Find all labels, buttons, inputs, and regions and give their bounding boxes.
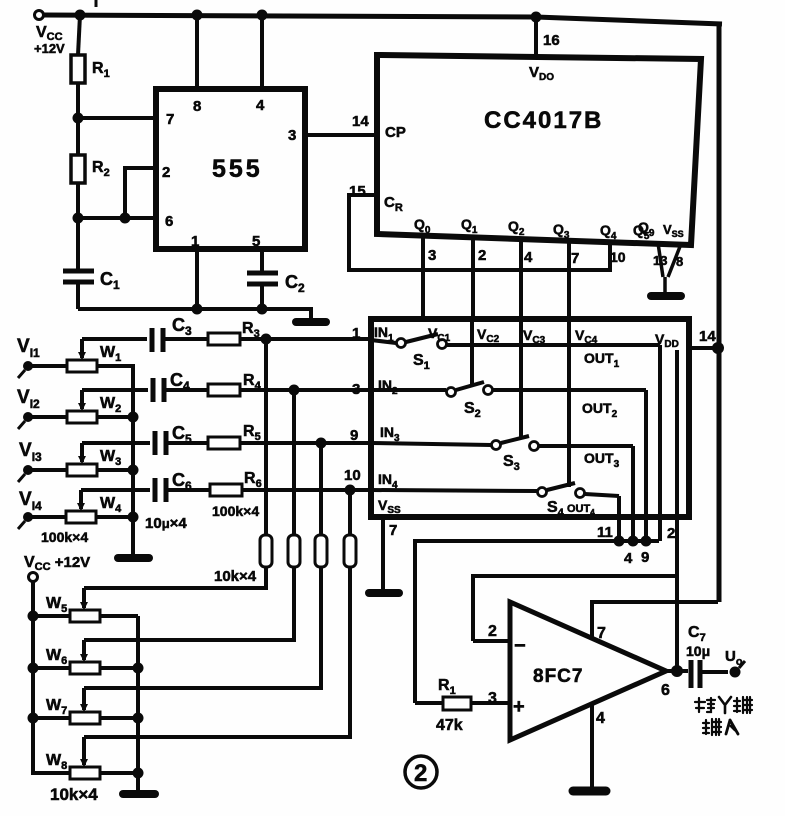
wire left power rail to R1 <box>78 15 80 55</box>
wire R4 to IN2 pin 3 <box>240 388 371 392</box>
svg-text:100k×4: 100k×4 <box>212 503 259 519</box>
svg-text:14: 14 <box>352 113 369 130</box>
wire OUT1 drop pin 2 <box>658 345 662 541</box>
wire VDD pin 14 stub <box>689 346 718 350</box>
svg-text:3: 3 <box>352 381 360 398</box>
svg-text:−: − <box>514 635 526 657</box>
potentiometer W6 <box>70 640 100 674</box>
resistor 10k b <box>288 535 300 567</box>
wire W7 right <box>100 716 138 720</box>
svg-text:+12V: +12V <box>34 41 65 56</box>
resistor R1 47k <box>443 697 471 710</box>
ground under W5-W8 rail <box>123 790 155 798</box>
wire W8 right <box>100 771 138 775</box>
wire C3 to R3 <box>165 337 208 341</box>
wire Q0 pin 3 drop <box>421 234 425 319</box>
wire W6 left <box>33 666 70 670</box>
svg-text:3: 3 <box>288 127 296 144</box>
capacitor C3 <box>152 328 163 352</box>
svg-text:555: 555 <box>212 155 263 183</box>
wire 10k a to W5 wiper <box>84 567 266 588</box>
scan artifact tick top <box>95 0 98 7</box>
wire bus to R1 <box>415 701 443 705</box>
wire S2 to OUT2 drop <box>493 388 646 392</box>
svg-text:10k×4: 10k×4 <box>214 568 257 585</box>
svg-text:7: 7 <box>166 111 174 128</box>
wire W1-W4 common rail <box>97 366 133 555</box>
wire VI1 to W1 <box>31 364 67 368</box>
wire W4 right to rail <box>96 515 133 519</box>
potentiometer W4 <box>66 490 96 523</box>
wire VDD inner drop to opamp supply <box>675 350 679 670</box>
node input terminal VI4 <box>18 512 33 529</box>
svg-text:9: 9 <box>350 427 358 444</box>
IC U3 analog switch box <box>371 319 689 517</box>
switch S3 <box>492 436 539 451</box>
node junction C2 rail <box>257 304 268 315</box>
node junction pin2 pin6 <box>120 213 131 224</box>
wire C4 to R4 <box>166 388 208 392</box>
node junction out pin11 bus <box>614 536 625 547</box>
svg-text:47k: 47k <box>436 717 463 734</box>
svg-text:2: 2 <box>478 247 486 264</box>
resistor 10k d <box>344 535 356 567</box>
svg-text:6: 6 <box>165 213 173 230</box>
svg-text:3: 3 <box>488 690 497 707</box>
node junction top rail x80 <box>75 10 86 21</box>
capacitor C1 <box>63 271 94 282</box>
switch S1 <box>397 334 447 349</box>
op-amp comparator 555 box <box>156 89 305 249</box>
wire C6 to R6 <box>168 488 210 492</box>
svg-text:15: 15 <box>349 183 366 200</box>
wire C1 to bottom rail <box>76 284 80 309</box>
wire IN1 inside to S1 <box>371 340 396 343</box>
node junction R1 R2 pin7 <box>73 113 84 124</box>
wire W3 right to rail <box>97 468 133 472</box>
svg-text:7: 7 <box>389 522 397 539</box>
node junction pin1 rail <box>192 304 203 315</box>
node junction pin14 rail <box>712 342 724 354</box>
wire W5-W8 right rail <box>136 616 140 790</box>
wire OUT4 drop pin 11 <box>617 496 621 541</box>
ground under CC4017B pins 13 8 <box>651 292 681 300</box>
wire Q1 pin 2 drop <box>471 236 475 319</box>
node input terminal VI1 <box>18 361 33 378</box>
wire VC2 control drop <box>470 319 474 384</box>
wire IN2 inside to S2 <box>371 388 446 392</box>
node Vcc terminal top-left <box>35 11 44 20</box>
resistor R3 <box>208 333 240 345</box>
capacitor C4 <box>153 378 164 402</box>
svg-text:CC4017B: CC4017B <box>484 107 603 134</box>
svg-text:7: 7 <box>571 250 579 267</box>
svg-text:100k×4: 100k×4 <box>41 529 88 545</box>
switch S2 <box>447 382 493 397</box>
svg-text:10k×4: 10k×4 <box>50 785 98 804</box>
ground opamp pin 4 <box>573 787 606 796</box>
wire pin 6 of 555 <box>78 216 156 220</box>
potentiometer W2 <box>67 390 97 423</box>
wire VC3 control drop <box>519 319 523 437</box>
svg-text:14: 14 <box>699 328 716 345</box>
wire R5 to IN3 pin 9 <box>240 441 371 445</box>
wire divider 1 drop <box>264 339 268 535</box>
svg-text:4: 4 <box>256 97 265 114</box>
wire Q2 pin 4 drop <box>519 238 523 319</box>
svg-text:8: 8 <box>193 98 201 115</box>
wire VSS pin 7 to ground <box>381 517 385 589</box>
wire pin 7 of 555 <box>78 116 156 120</box>
node junction out pin9 bus <box>641 536 652 547</box>
node junction R3 divider <box>261 334 272 345</box>
ground under 555 rail <box>296 318 326 326</box>
node junction top rail x197 <box>192 10 203 21</box>
wire R1 to pin 3 <box>471 701 510 705</box>
wire pin 5 of 555 to C2 <box>260 249 264 272</box>
wire R6 to IN4 pin 10 <box>242 488 371 492</box>
wire pin 8 of 555 to rail <box>195 15 199 89</box>
svg-text:4: 4 <box>596 710 605 727</box>
svg-text:13: 13 <box>653 253 667 268</box>
wire pin 6 output <box>666 669 688 673</box>
wire S1 to OUT1 drop <box>447 343 660 347</box>
ground under W1-W4 rail <box>118 554 149 562</box>
svg-text:10: 10 <box>344 467 361 484</box>
svg-text:4: 4 <box>624 550 633 567</box>
node junction top rail x262 <box>257 10 268 21</box>
wire pin 4 of 555 to rail <box>260 15 264 89</box>
resistor 10k c <box>315 535 327 567</box>
circled figure number 2 <box>405 756 437 788</box>
svg-text:16: 16 <box>543 32 560 49</box>
node junction W4 rail <box>128 512 139 523</box>
wire W1 wiper to C3 <box>82 337 147 341</box>
op-amp U4 8FC7 triangle <box>510 602 666 740</box>
svg-text:11: 11 <box>597 524 613 541</box>
wire IN4 inside to S4 <box>371 490 537 491</box>
potentiometer W1 <box>67 339 97 372</box>
node junction right rail W7 <box>133 713 144 724</box>
potentiometer W5 <box>70 588 100 622</box>
svg-text:6: 6 <box>661 682 670 699</box>
wire W5 left <box>33 614 70 618</box>
node junction R4 divider <box>289 385 300 396</box>
wire IN3 inside to S3 <box>371 443 491 445</box>
wire divider 2 drop <box>292 390 296 535</box>
wire W2 right to rail <box>97 415 133 419</box>
wire pin 4 to ground <box>590 703 594 787</box>
svg-text:10μ: 10μ <box>686 643 710 659</box>
wire VC4 control drop <box>567 319 571 487</box>
wire 10k d to W8 wiper <box>84 567 350 737</box>
node junction output feedback <box>671 665 683 677</box>
wire pin 1 of 555 to ground rail <box>195 249 199 309</box>
wire pin 15 CR reset loop <box>349 195 610 270</box>
svg-text:7: 7 <box>597 625 606 642</box>
wire 555 ground rail <box>78 309 311 318</box>
switch S4 <box>538 483 585 498</box>
node output terminal Uo <box>730 661 746 678</box>
resistor R4 <box>208 384 240 396</box>
wire pin 2 of 555 <box>125 168 156 218</box>
node junction right rail W6 <box>133 663 144 674</box>
svg-text:9: 9 <box>641 549 649 566</box>
wire pin 2 stub <box>473 639 510 643</box>
node junction R6 divider <box>345 485 356 496</box>
wire 10k c to W7 wiper <box>84 567 321 688</box>
wire W6 right <box>100 666 138 670</box>
wire C2 to ground rail <box>260 286 264 309</box>
wire S4 to OUT4 drop <box>585 494 619 496</box>
wire OUT3 drop pin 4 <box>631 446 635 541</box>
capacitor C6 <box>155 478 166 502</box>
node junction rail W7 <box>28 713 39 724</box>
node Vcc terminal bottom-left <box>29 573 38 582</box>
wire S3 to OUT3 drop <box>539 444 633 448</box>
wire R2 to node <box>76 183 80 270</box>
node junction rail W5 <box>28 611 39 622</box>
node junction W2 rail <box>128 412 139 423</box>
wire C5 to R5 <box>168 441 208 445</box>
svg-text:3: 3 <box>428 247 436 264</box>
IC U2 CC4017B box <box>377 55 701 245</box>
wire feedback loop <box>473 576 677 641</box>
wire VI2 to W2 <box>31 415 67 419</box>
svg-text:2: 2 <box>488 623 497 640</box>
label Chinese input line 2 <box>703 719 738 735</box>
wire VCC top rail <box>44 15 722 24</box>
node junction right rail W8 <box>133 768 144 779</box>
svg-text:10: 10 <box>610 249 626 265</box>
wire W5-W8 left rail <box>33 582 70 773</box>
wire 10k b to W6 wiper <box>84 567 294 640</box>
svg-text:4: 4 <box>524 249 533 266</box>
wire output bus <box>415 541 659 703</box>
svg-text:2: 2 <box>667 525 675 542</box>
svg-text:2: 2 <box>414 760 427 787</box>
wire W2 wiper to C4 <box>82 388 148 392</box>
wire Q3 pin 7 drop <box>567 239 571 319</box>
node junction R5 divider <box>316 438 327 449</box>
wire W4 wiper to C6 <box>81 488 150 492</box>
capacitor C7 <box>691 660 700 688</box>
wire divider 4 drop <box>348 490 352 535</box>
wire supply rail to pin 7 <box>592 602 718 639</box>
ground under VSS pin 7 <box>369 589 399 597</box>
node junction W3 rail <box>128 465 139 476</box>
svg-text:2: 2 <box>162 164 170 181</box>
wire C7 to Uo <box>702 670 728 674</box>
node input terminal VI2 <box>18 412 33 429</box>
node junction R2 C1 pin6 <box>73 213 84 224</box>
wire R1 to node <box>76 83 80 155</box>
wire OUT2 drop pin 9 <box>644 390 648 541</box>
resistor 10k a <box>260 535 272 567</box>
capacitor C2 <box>247 273 278 284</box>
svg-text:VCC +12V: VCC +12V <box>24 554 90 573</box>
wire pin 3 of 555 to CP pin14 <box>305 133 377 137</box>
wire divider 3 drop <box>319 443 323 535</box>
wire VI3 to W3 <box>31 468 67 472</box>
svg-text:+: + <box>513 696 525 718</box>
node junction out pin4 bus <box>628 536 639 547</box>
node junction rail W6 <box>28 663 39 674</box>
svg-text:1: 1 <box>191 233 199 250</box>
potentiometer W8 <box>70 737 100 779</box>
resistor R6 <box>210 484 242 496</box>
resistor R5 <box>208 437 240 449</box>
wire pins 13 8 to ground <box>658 243 681 292</box>
wire pin 16 of CC4017B to rail <box>534 17 538 57</box>
svg-text:CP: CP <box>385 124 406 141</box>
svg-text:8: 8 <box>676 254 683 269</box>
resistor R1 <box>71 55 85 83</box>
wire W7 left <box>33 716 70 720</box>
node input terminal VI3 <box>18 465 33 482</box>
wire W3 wiper to C5 <box>82 441 150 445</box>
wire R3 to IN1 pin 1 <box>240 337 371 341</box>
wire VCC right rail <box>717 22 722 602</box>
svg-text:8FC7: 8FC7 <box>533 666 583 687</box>
node junction top rail x536 <box>531 12 542 23</box>
potentiometer W7 <box>70 688 100 724</box>
wire VI4 to W4 <box>31 515 66 519</box>
label Chinese connect to Y axis line 1 <box>695 697 752 713</box>
potentiometer W3 <box>67 443 97 476</box>
wire W5 right <box>100 614 138 618</box>
svg-text:1: 1 <box>352 325 360 342</box>
svg-text:5: 5 <box>252 233 260 250</box>
svg-text:10μ×4: 10μ×4 <box>145 515 187 532</box>
resistor R2 <box>71 155 85 183</box>
capacitor C5 <box>155 431 166 455</box>
